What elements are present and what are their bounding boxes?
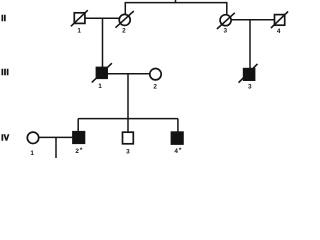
individual IV-4: affected male, proband-marked xyxy=(171,132,183,155)
wire: drop to IV-4 xyxy=(177,119,179,132)
svg-text:2: 2 xyxy=(75,148,79,155)
svg-text:2: 2 xyxy=(122,27,126,34)
wire: drop to IV-2 xyxy=(77,119,79,132)
wire: drop to IV-3 xyxy=(127,119,129,133)
individual II-2: deceased unaffected female xyxy=(116,11,134,34)
svg-text:1: 1 xyxy=(30,150,34,157)
svg-text:*: * xyxy=(80,147,83,154)
wire: generation I descent tick xyxy=(175,0,177,3)
individual III-1: deceased affected male xyxy=(92,63,112,90)
svg-text:1: 1 xyxy=(98,83,102,90)
wire: descent III-1xIII-2 to sibship bar xyxy=(127,74,129,119)
svg-text:3: 3 xyxy=(224,28,228,35)
wire: marriage line II-3 to II-4 xyxy=(231,19,275,21)
individual IV-2: affected male, proband-marked xyxy=(73,132,85,155)
wire: descent IV-1xIV-2 to generation V (cut off) xyxy=(55,137,57,158)
svg-text:3: 3 xyxy=(126,148,130,155)
svg-text:1: 1 xyxy=(77,27,81,34)
wire: descent II-1xII-2 to III-1 xyxy=(102,18,104,67)
svg-text:*: * xyxy=(179,147,182,154)
wire: sibship bar generation IV xyxy=(78,118,178,120)
svg-text:III: III xyxy=(1,68,9,77)
wire: top sibship bar I to II-2 and II-3 xyxy=(125,3,227,15)
svg-text:IV: IV xyxy=(1,134,10,143)
individual IV-1: unaffected female xyxy=(27,132,38,157)
individual II-1: deceased unaffected male xyxy=(71,10,88,34)
individual III-2: unaffected female xyxy=(150,69,161,91)
svg-text:II: II xyxy=(1,14,6,23)
wire: marriage line III-1 to III-2 xyxy=(107,73,149,75)
svg-text:4: 4 xyxy=(277,28,281,35)
svg-text:4: 4 xyxy=(174,148,178,155)
wire: marriage line IV-1 to IV-2 xyxy=(39,136,73,138)
wire: marriage line II-1 to II-2 xyxy=(85,17,120,19)
individual II-4: deceased unaffected male xyxy=(271,12,288,36)
svg-text:3: 3 xyxy=(248,83,252,90)
individual IV-3: unaffected male xyxy=(123,132,134,155)
individual III-3: deceased affected male xyxy=(239,64,258,90)
wire: descent II-3xII-4 to III-3 xyxy=(249,20,251,69)
individual II-3: deceased unaffected female xyxy=(217,13,235,35)
svg-text:2: 2 xyxy=(153,83,157,90)
